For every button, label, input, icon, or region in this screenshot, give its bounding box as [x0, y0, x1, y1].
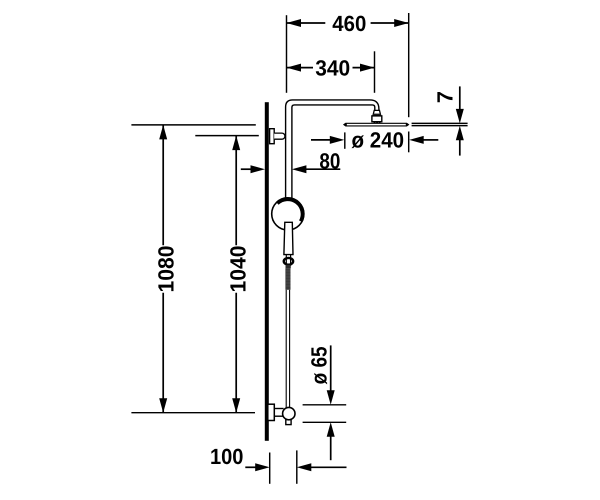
svg-text:100: 100 [210, 444, 244, 469]
svg-text:ø 240: ø 240 [352, 128, 405, 153]
svg-text:1080: 1080 [154, 246, 179, 293]
svg-text:7: 7 [433, 91, 458, 103]
svg-text:460: 460 [332, 11, 366, 36]
svg-text:340: 340 [315, 55, 350, 80]
svg-text:80: 80 [319, 148, 340, 173]
svg-text:ø 65: ø 65 [307, 346, 332, 384]
svg-text:1040: 1040 [226, 246, 251, 293]
